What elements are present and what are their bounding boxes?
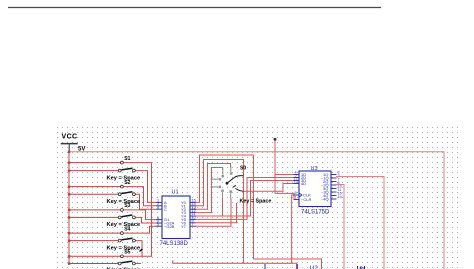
branch wires to switches: [69, 162, 120, 164]
5V rail wire: [69, 152, 444, 269]
svg-text:9: 9: [295, 191, 297, 195]
svg-text:5V: 5V: [78, 147, 85, 153]
svg-text:S5: S5: [124, 250, 130, 256]
VCC power symbol: [62, 144, 78, 152]
wire S1 upper row to vertical: [124, 163, 292, 264]
wire S2 lever output: [136, 194, 157, 209]
switch S4: [107, 226, 141, 251]
U4 fragment at bottom: [357, 266, 365, 269]
switch S2: [107, 180, 141, 205]
svg-text:U3: U3: [311, 166, 318, 172]
wire pin12 to S0 top-left terminal: [196, 168, 223, 213]
svg-text:S0: S0: [240, 166, 246, 172]
U2 fragment at bottom: [265, 264, 318, 269]
svg-text:Y7: Y7: [181, 224, 187, 229]
wire S4 upper output: [124, 226, 157, 233]
svg-text:U2: U2: [310, 265, 319, 269]
wire pin13 to S0 top-right terminal: [196, 164, 231, 210]
svg-text:74LS138D: 74LS138D: [160, 241, 189, 247]
U3 latch 74LS175D: [294, 166, 342, 216]
wire pin10 to U3 2D: [196, 178, 294, 220]
wire pin7 to S0 bottom-right: [196, 199, 231, 226]
svg-text:~G2B: ~G2B: [164, 224, 175, 229]
svg-text:S1: S1: [124, 156, 130, 162]
wire S5 upper stub: [124, 255, 152, 257]
svg-text:U1: U1: [172, 190, 179, 196]
svg-text:3: 3: [157, 205, 159, 209]
switch S1: [107, 156, 141, 181]
svg-text:VCC: VCC: [62, 134, 78, 141]
svg-text:7: 7: [192, 222, 194, 226]
svg-text:~CLR: ~CLR: [301, 197, 311, 202]
wire pin9: [196, 222, 237, 224]
wire CLK feed from bottom bus: [292, 195, 297, 269]
wire S4 lever stub: [136, 241, 143, 257]
svg-text:S4: S4: [124, 226, 130, 232]
left VCC bus wire: [69, 152, 120, 264]
fan wires U1 right pins: [196, 155, 322, 269]
svg-text:13: 13: [294, 180, 298, 184]
wire S1 lever output: [136, 171, 157, 203]
svg-text:S2: S2: [124, 180, 130, 186]
switch S3: [107, 203, 141, 228]
svg-text:14: 14: [338, 195, 342, 199]
wire S0 bottom-left down: [222, 198, 224, 216]
svg-text:~4Q: ~4Q: [321, 197, 329, 202]
svg-text:74LS175D: 74LS175D: [301, 210, 330, 216]
wire from node dot to U3 1D: [275, 139, 294, 200]
schematic grid: [57, 127, 459, 269]
wire S5 lever to bottom bus: [136, 263, 141, 265]
switch S5: [107, 249, 143, 269]
junction dots on bus: [68, 151, 70, 265]
node dot: [274, 138, 277, 141]
svg-text:5: 5: [157, 222, 159, 226]
wire S0 contact B stub: [244, 190, 254, 192]
wire U1 pin11 up to U3 3D: [251, 181, 294, 217]
wire S0 contact B to U3 4D: [254, 184, 294, 192]
wire pin14 loop down long vertical: [196, 160, 244, 264]
wire S3 lever output: [136, 217, 157, 223]
wires U3 right pins down: [337, 177, 385, 269]
wire pin15 loop around S0 down to bottom: [196, 155, 322, 269]
wire S3 upper output: [124, 210, 157, 220]
svg-text:Key = Space: Key = Space: [240, 198, 272, 204]
wire pin11: [196, 215, 251, 217]
U1 decoder 74LS138D: [156, 190, 196, 248]
page rule line: [8, 7, 381, 9]
switch S0: [211, 166, 272, 205]
wire S2 upper output: [124, 187, 157, 206]
svg-text:S3: S3: [124, 203, 130, 209]
svg-text:1: 1: [295, 196, 297, 200]
svg-text:4D: 4D: [301, 181, 306, 186]
svg-text:C: C: [164, 207, 167, 212]
